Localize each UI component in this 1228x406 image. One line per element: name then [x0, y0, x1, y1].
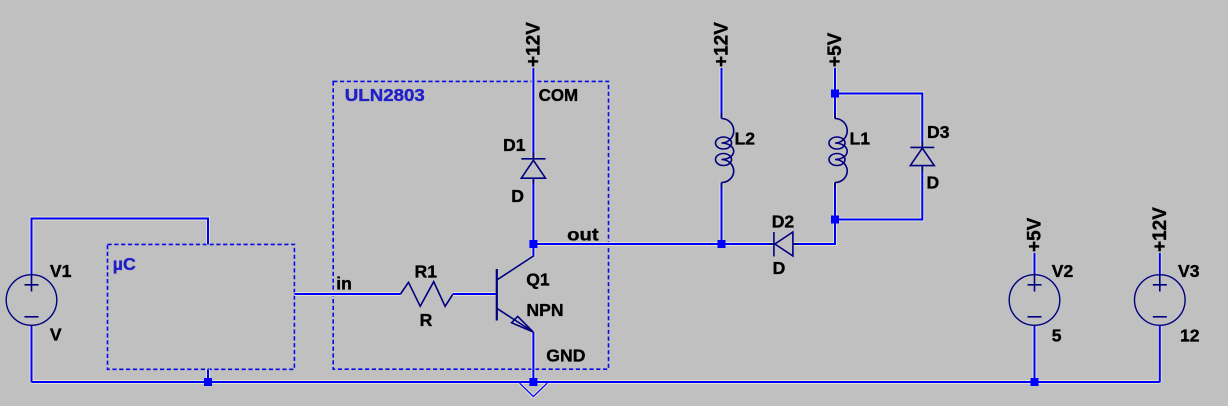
svg-text:D: D [927, 173, 940, 193]
svg-text:+5V: +5V [1025, 217, 1046, 252]
svg-text:V: V [50, 324, 62, 344]
svg-text:L2: L2 [735, 128, 756, 148]
svg-text:D: D [773, 258, 786, 278]
svg-text:V3: V3 [1178, 261, 1200, 281]
svg-text:+5V: +5V [825, 32, 846, 67]
svg-text:out: out [567, 225, 599, 245]
svg-text:L1: L1 [850, 128, 871, 148]
svg-text:ULN2803: ULN2803 [345, 85, 425, 105]
svg-text:µC: µC [113, 254, 136, 274]
svg-text:NPN: NPN [526, 300, 563, 320]
svg-text:V2: V2 [1052, 261, 1074, 281]
svg-text:in: in [336, 273, 352, 293]
svg-text:D2: D2 [772, 211, 795, 231]
svg-text:D3: D3 [927, 122, 950, 142]
svg-text:COM: COM [539, 85, 579, 105]
svg-text:Q1: Q1 [526, 269, 550, 289]
svg-text:GND: GND [546, 345, 585, 365]
svg-text:+12V: +12V [524, 22, 545, 67]
svg-text:D1: D1 [503, 135, 526, 155]
svg-text:+12V: +12V [1150, 207, 1171, 252]
svg-text:5: 5 [1052, 325, 1062, 345]
svg-text:V1: V1 [50, 261, 72, 281]
svg-text:R1: R1 [415, 262, 438, 282]
svg-text:12: 12 [1180, 325, 1200, 345]
svg-text:D: D [511, 186, 524, 206]
svg-text:R: R [420, 310, 433, 330]
svg-text:+12V: +12V [712, 22, 733, 67]
